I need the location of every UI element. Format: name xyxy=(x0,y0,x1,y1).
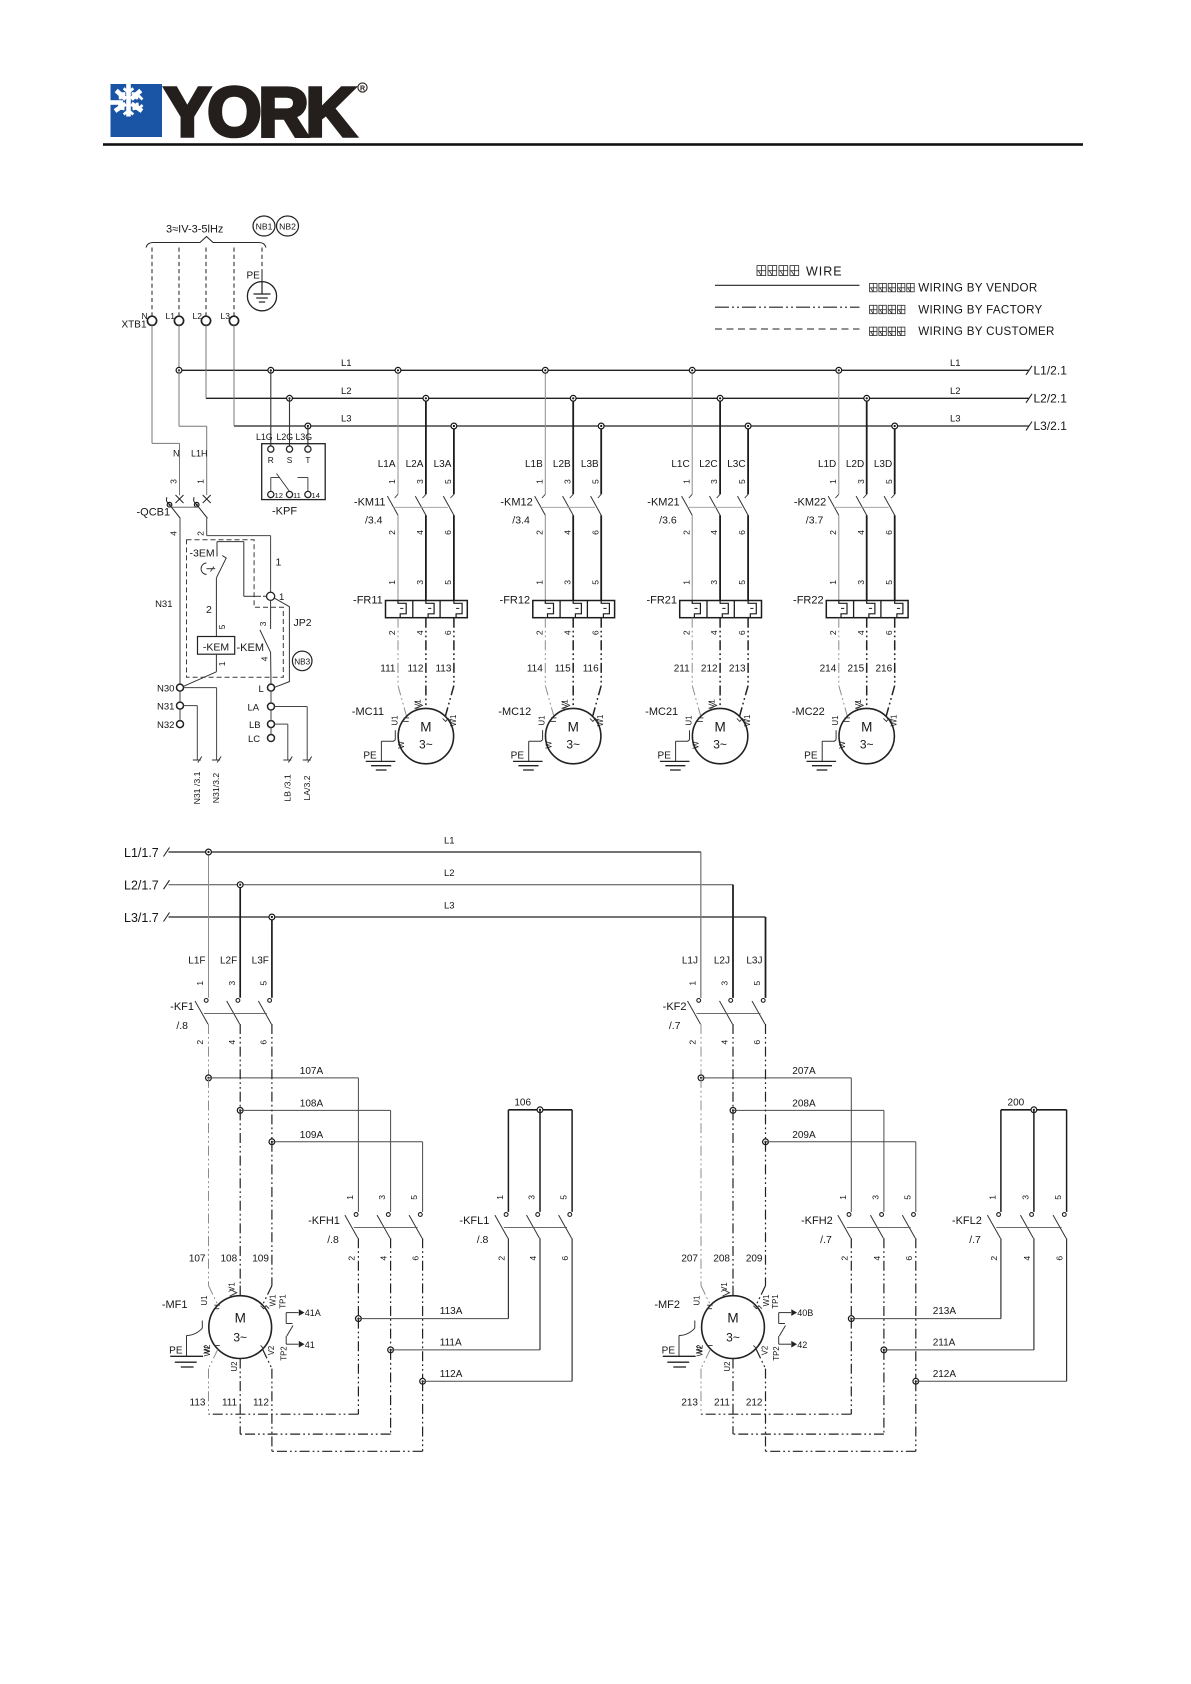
svg-text:2: 2 xyxy=(387,630,397,635)
wire rail L2 xyxy=(206,397,1029,399)
terminal LA xyxy=(268,703,275,710)
customer supply drops (dashed) xyxy=(151,248,153,317)
svg-text:2: 2 xyxy=(347,1256,357,1261)
svg-text:L2: L2 xyxy=(950,386,961,397)
svg-text:L1D: L1D xyxy=(818,459,836,470)
wire 111 xyxy=(397,618,399,686)
relay coil KEM xyxy=(198,637,235,655)
svg-text:1: 1 xyxy=(276,557,282,569)
wire L2D xyxy=(866,398,868,494)
svg-text:108: 108 xyxy=(221,1253,238,1264)
svg-text:-KFH1: -KFH1 xyxy=(308,1215,340,1227)
svg-text:2: 2 xyxy=(839,1256,849,1261)
motor -MF2 xyxy=(701,1286,710,1305)
svg-text:U1: U1 xyxy=(831,716,840,726)
svg-text:2: 2 xyxy=(196,531,206,536)
svg-text:5: 5 xyxy=(752,981,762,986)
svg-text:N: N xyxy=(173,449,180,459)
svg-text:W: W xyxy=(203,1346,212,1354)
svg-text:NB1: NB1 xyxy=(256,222,273,232)
svg-text:LB: LB xyxy=(249,720,261,731)
svg-text:213A: 213A xyxy=(933,1306,957,1317)
svg-text:5: 5 xyxy=(590,580,600,585)
svg-text:5: 5 xyxy=(737,580,747,585)
svg-text:-3EM: -3EM xyxy=(190,548,215,560)
svg-text:L3A: L3A xyxy=(434,459,452,470)
svg-text:W: W xyxy=(695,1346,704,1354)
svg-text:2: 2 xyxy=(206,604,212,616)
svg-text:L2C: L2C xyxy=(699,459,717,470)
svg-text:4: 4 xyxy=(415,530,425,535)
svg-text:PE: PE xyxy=(247,271,261,282)
svg-text:U1: U1 xyxy=(692,1296,701,1306)
svg-text:112: 112 xyxy=(407,663,423,674)
ground PE xyxy=(394,730,396,740)
svg-text:6: 6 xyxy=(590,630,600,635)
XTB1 feeders xyxy=(151,325,153,443)
svg-text:112: 112 xyxy=(253,1397,269,1408)
svg-text:N31: N31 xyxy=(157,701,174,712)
svg-text:V2: V2 xyxy=(761,1346,770,1356)
svg-text:2: 2 xyxy=(534,530,544,535)
svg-text:U2: U2 xyxy=(230,1362,239,1372)
outgoing N31/LA/LB wires xyxy=(184,687,217,689)
svg-text:-KM22: -KM22 xyxy=(794,497,826,509)
svg-text:208A: 208A xyxy=(792,1098,816,1109)
svg-text:3~: 3~ xyxy=(726,1331,740,1345)
svg-text:111: 111 xyxy=(222,1397,238,1408)
svg-text:6: 6 xyxy=(752,1040,762,1045)
svg-text:XTB1: XTB1 xyxy=(122,320,147,331)
svg-text:4: 4 xyxy=(260,656,270,661)
svg-text:-FR12: -FR12 xyxy=(500,594,531,606)
wire 211 xyxy=(691,618,693,686)
svg-text:L3J: L3J xyxy=(746,956,762,967)
svg-text:W: W xyxy=(397,741,406,749)
svg-text:2: 2 xyxy=(387,530,397,535)
wire L1B xyxy=(544,370,546,494)
svg-text:WIRE: WIRE xyxy=(806,265,843,279)
svg-text:-KFH2: -KFH2 xyxy=(801,1215,833,1227)
motor -MC11 xyxy=(398,708,453,763)
svg-text:2: 2 xyxy=(681,530,691,535)
svg-text:LB /3.1: LB /3.1 xyxy=(282,774,292,802)
svg-text:3: 3 xyxy=(856,580,866,585)
junction xyxy=(836,367,842,373)
svg-text:6: 6 xyxy=(884,630,894,635)
svg-text:3: 3 xyxy=(415,479,425,484)
svg-text:N31/3.2: N31/3.2 xyxy=(211,773,221,804)
svg-text:YORK: YORK xyxy=(164,73,355,151)
svg-text:113: 113 xyxy=(435,663,451,674)
svg-text:1: 1 xyxy=(345,1195,355,1200)
svg-text:1: 1 xyxy=(681,580,691,585)
svg-text:209: 209 xyxy=(746,1253,763,1264)
svg-text:6: 6 xyxy=(884,530,894,535)
svg-text:TP2: TP2 xyxy=(772,1346,781,1360)
svg-text:4: 4 xyxy=(1022,1256,1032,1261)
svg-text:L2F: L2F xyxy=(220,956,237,967)
svg-text:PE: PE xyxy=(511,751,525,762)
svg-text:L3B: L3B xyxy=(581,459,599,470)
svg-text:-MC22: -MC22 xyxy=(792,706,825,718)
svg-text:1: 1 xyxy=(681,479,691,484)
svg-text:3~: 3~ xyxy=(566,738,580,752)
wire L1D xyxy=(838,370,840,494)
wire L1F/L2F/L3F columns xyxy=(208,852,210,998)
svg-text:107A: 107A xyxy=(300,1066,324,1077)
wire L3D xyxy=(894,426,896,494)
svg-text:1: 1 xyxy=(688,981,698,986)
svg-text:4: 4 xyxy=(379,1256,389,1261)
svg-text:L1: L1 xyxy=(950,358,961,369)
svg-text:L3C: L3C xyxy=(727,459,745,470)
svg-text:L2A: L2A xyxy=(406,459,424,470)
svg-text:2: 2 xyxy=(989,1256,999,1261)
terminal L xyxy=(268,684,275,691)
svg-text:207: 207 xyxy=(681,1253,698,1264)
svg-text:L3F: L3F xyxy=(252,956,269,967)
svg-text:111: 111 xyxy=(380,663,396,674)
svg-text:JP2: JP2 xyxy=(294,617,312,629)
svg-text:5: 5 xyxy=(902,1195,912,1200)
svg-text:2: 2 xyxy=(828,630,838,635)
YORK logo blue square with snowflake xyxy=(111,84,163,137)
svg-text:L1B: L1B xyxy=(525,459,543,470)
motor -MC22 xyxy=(839,708,894,763)
svg-text:4: 4 xyxy=(856,630,866,635)
svg-text:-KEM: -KEM xyxy=(203,641,229,653)
svg-text:4: 4 xyxy=(720,1040,730,1045)
svg-text:5: 5 xyxy=(443,479,453,484)
node NB3 xyxy=(292,651,312,671)
svg-text:207A: 207A xyxy=(792,1066,816,1077)
svg-text:M: M xyxy=(714,720,725,735)
svg-text:2: 2 xyxy=(681,630,691,635)
svg-text:/3.7: /3.7 xyxy=(806,514,824,526)
svg-text:40B: 40B xyxy=(797,1308,813,1318)
svg-text:5: 5 xyxy=(258,981,268,986)
svg-text:M: M xyxy=(861,720,872,735)
wire L2B xyxy=(572,398,574,494)
svg-text:1: 1 xyxy=(828,479,838,484)
wire L3B xyxy=(600,426,602,494)
svg-text:107: 107 xyxy=(189,1253,206,1264)
svg-text:211: 211 xyxy=(674,663,690,674)
svg-text:L: L xyxy=(259,684,264,695)
svg-text:6: 6 xyxy=(737,530,747,535)
ground PE xyxy=(542,730,544,740)
svg-text:W: W xyxy=(838,741,847,749)
svg-text:WIRING BY VENDOR: WIRING BY VENDOR xyxy=(918,282,1037,295)
svg-text:6: 6 xyxy=(590,530,600,535)
svg-text:L3: L3 xyxy=(950,414,961,425)
svg-text:L1/2.1: L1/2.1 xyxy=(1034,364,1068,378)
svg-text:212: 212 xyxy=(746,1397,763,1408)
terminal N30 xyxy=(177,684,184,691)
svg-text:3: 3 xyxy=(562,580,572,585)
svg-text:3: 3 xyxy=(258,621,268,626)
svg-text:3: 3 xyxy=(871,1195,881,1200)
svg-text:41: 41 xyxy=(305,1340,315,1350)
svg-text:3: 3 xyxy=(377,1195,387,1200)
svg-text:113A: 113A xyxy=(440,1306,463,1317)
svg-text:6: 6 xyxy=(443,630,453,635)
svg-text:5: 5 xyxy=(443,580,453,585)
header rule xyxy=(103,143,1083,146)
svg-text:42: 42 xyxy=(797,1340,807,1350)
svg-text:-KM11: -KM11 xyxy=(354,497,386,509)
legend WIRE xyxy=(757,266,766,276)
svg-text:V2: V2 xyxy=(267,1346,276,1356)
ground PE xyxy=(689,730,691,740)
svg-text:NB2: NB2 xyxy=(279,222,296,232)
svg-text:/.8: /.8 xyxy=(176,1020,188,1032)
svg-text:L2G: L2G xyxy=(277,432,294,442)
svg-text:L3D: L3D xyxy=(874,459,892,470)
wire L2C xyxy=(719,398,721,494)
svg-text:-MF2: -MF2 xyxy=(654,1299,680,1311)
svg-text:214: 214 xyxy=(820,663,837,674)
svg-text:L1: L1 xyxy=(341,358,352,369)
svg-text:5: 5 xyxy=(884,580,894,585)
svg-text:41A: 41A xyxy=(305,1308,321,1318)
svg-text:-KM12: -KM12 xyxy=(500,497,532,509)
junction xyxy=(892,423,898,429)
svg-text:L3G: L3G xyxy=(296,432,313,442)
svg-text:1: 1 xyxy=(387,580,397,585)
svg-text:-FR21: -FR21 xyxy=(646,594,677,606)
svg-text:L2/1.7: L2/1.7 xyxy=(124,879,159,893)
svg-text:6: 6 xyxy=(259,1040,269,1045)
svg-text:M: M xyxy=(568,720,579,735)
svg-text:1: 1 xyxy=(196,479,206,484)
wire L1C xyxy=(691,370,693,494)
svg-text:5: 5 xyxy=(737,479,747,484)
svg-text:4: 4 xyxy=(562,530,572,535)
svg-text:-KF2: -KF2 xyxy=(663,1001,687,1013)
svg-text:LC: LC xyxy=(248,734,260,745)
motor -MC21 xyxy=(692,708,747,763)
svg-text:2: 2 xyxy=(688,1040,698,1045)
svg-text:5: 5 xyxy=(217,624,227,629)
svg-text:PE: PE xyxy=(662,1345,676,1356)
svg-text:-KPF: -KPF xyxy=(272,506,297,518)
PE earth circle xyxy=(247,282,276,311)
svg-text:112A: 112A xyxy=(440,1369,463,1380)
svg-text:L2: L2 xyxy=(341,386,352,397)
svg-text:L3: L3 xyxy=(341,414,352,425)
svg-text:2: 2 xyxy=(534,630,544,635)
svg-text:PE: PE xyxy=(804,751,818,762)
svg-text:PE: PE xyxy=(169,1345,183,1356)
svg-text:116: 116 xyxy=(583,663,599,674)
svg-text:3~: 3~ xyxy=(860,738,874,752)
junction xyxy=(745,423,751,429)
svg-text:114: 114 xyxy=(527,663,543,674)
svg-text:6: 6 xyxy=(411,1256,421,1261)
svg-text:L1/1.7: L1/1.7 xyxy=(124,846,159,860)
junction xyxy=(423,395,429,401)
svg-text:/.8: /.8 xyxy=(477,1234,489,1246)
svg-text:3: 3 xyxy=(562,479,572,484)
svg-text:212: 212 xyxy=(701,663,718,674)
svg-text:W1: W1 xyxy=(269,1295,278,1307)
svg-text:W1: W1 xyxy=(762,1295,771,1307)
svg-text:5: 5 xyxy=(884,479,894,484)
svg-text:-KFL2: -KFL2 xyxy=(952,1215,982,1227)
terminal N31 xyxy=(177,702,184,709)
svg-text:-MC12: -MC12 xyxy=(498,706,531,718)
svg-text:U1: U1 xyxy=(390,716,399,726)
svg-text:T: T xyxy=(305,455,310,465)
svg-text:PE: PE xyxy=(363,751,377,762)
svg-text:N31: N31 xyxy=(155,599,172,610)
svg-text:/3.6: /3.6 xyxy=(659,514,677,526)
svg-text:208: 208 xyxy=(713,1253,730,1264)
svg-text:1: 1 xyxy=(828,580,838,585)
svg-text:213: 213 xyxy=(729,663,746,674)
wire 2 xyxy=(215,578,217,637)
svg-text:3: 3 xyxy=(527,1195,537,1200)
svg-text:R: R xyxy=(360,86,365,93)
wire 214 xyxy=(838,618,840,686)
svg-text:4: 4 xyxy=(709,630,719,635)
svg-text:1: 1 xyxy=(195,981,205,986)
svg-text:-FR22: -FR22 xyxy=(793,594,824,606)
svg-text:/.7: /.7 xyxy=(669,1020,681,1032)
svg-text:L1F: L1F xyxy=(188,956,205,967)
svg-text:N30: N30 xyxy=(157,683,174,694)
svg-text:3~: 3~ xyxy=(419,738,433,752)
ground PE xyxy=(835,730,837,740)
svg-text:109: 109 xyxy=(252,1253,269,1264)
svg-text:5: 5 xyxy=(1053,1195,1063,1200)
svg-text:6: 6 xyxy=(737,630,747,635)
phase monitor KPF xyxy=(268,367,274,373)
svg-text:TP1: TP1 xyxy=(771,1294,780,1308)
svg-text:1: 1 xyxy=(534,580,544,585)
junction xyxy=(598,423,604,429)
svg-text:R: R xyxy=(268,455,274,465)
svg-text:4: 4 xyxy=(562,630,572,635)
svg-text:L1A: L1A xyxy=(378,459,396,470)
svg-text:115: 115 xyxy=(555,663,571,674)
svg-text:L2B: L2B xyxy=(553,459,571,470)
svg-text:-MF1: -MF1 xyxy=(162,1299,188,1311)
svg-text:L3: L3 xyxy=(444,901,455,912)
svg-text:NB3: NB3 xyxy=(294,657,310,666)
svg-text:109A: 109A xyxy=(300,1130,324,1141)
svg-text:M: M xyxy=(727,1311,738,1326)
svg-text:212A: 212A xyxy=(933,1369,957,1380)
jumper JP2 xyxy=(275,598,290,687)
junction xyxy=(542,367,548,373)
junction xyxy=(395,367,401,373)
svg-text:N31 /3.1: N31 /3.1 xyxy=(192,771,202,804)
svg-text:6: 6 xyxy=(904,1256,914,1261)
svg-text:3: 3 xyxy=(169,479,179,484)
svg-text:4: 4 xyxy=(415,630,425,635)
svg-text:W: W xyxy=(691,741,700,749)
svg-text:L1J: L1J xyxy=(682,956,698,967)
svg-text:3~: 3~ xyxy=(233,1331,247,1345)
svg-text:4: 4 xyxy=(227,1040,237,1045)
enclosure dashed box 3EM xyxy=(187,540,284,678)
svg-text:L2/2.1: L2/2.1 xyxy=(1034,392,1068,406)
svg-text:PE: PE xyxy=(658,751,672,762)
svg-text:TP2: TP2 xyxy=(280,1346,289,1360)
svg-text:2: 2 xyxy=(828,530,838,535)
svg-text:1: 1 xyxy=(495,1195,505,1200)
wire L3A xyxy=(453,426,455,494)
ground PE xyxy=(694,1321,696,1329)
svg-text:3: 3 xyxy=(856,479,866,484)
svg-text:4: 4 xyxy=(169,531,179,536)
svg-text:3≈IV-3-5lHz: 3≈IV-3-5lHz xyxy=(166,224,223,236)
wire rail L3 xyxy=(234,425,1029,427)
svg-text:3: 3 xyxy=(227,981,237,986)
ground PE xyxy=(201,1321,203,1329)
taps 107A/108A/109A style xyxy=(700,1024,702,1078)
svg-text:U2: U2 xyxy=(723,1362,732,1372)
svg-text:M: M xyxy=(235,1311,246,1326)
svg-text:4: 4 xyxy=(872,1256,882,1261)
svg-text:106: 106 xyxy=(514,1098,531,1109)
svg-text:W: W xyxy=(545,741,554,749)
svg-text:N32: N32 xyxy=(157,720,174,731)
svg-text:L2: L2 xyxy=(444,868,455,879)
svg-text:1: 1 xyxy=(217,661,227,666)
svg-text:2: 2 xyxy=(195,1040,205,1045)
svg-text:3~: 3~ xyxy=(713,738,727,752)
svg-text:213: 213 xyxy=(681,1397,698,1408)
svg-text:-KEM: -KEM xyxy=(237,642,265,654)
motor -MF1 xyxy=(209,1286,218,1305)
junction xyxy=(717,395,723,401)
svg-text:111A: 111A xyxy=(440,1337,462,1348)
wire L2A xyxy=(425,398,427,494)
svg-text:LA: LA xyxy=(248,703,260,714)
node NB2 xyxy=(277,216,299,236)
svg-text:L1C: L1C xyxy=(671,459,689,470)
motor -MC12 xyxy=(546,708,601,763)
svg-text:2: 2 xyxy=(497,1256,507,1261)
svg-text:WIRING BY FACTORY: WIRING BY FACTORY xyxy=(918,303,1042,316)
svg-text:L2J: L2J xyxy=(714,956,730,967)
svg-text:L1: L1 xyxy=(444,836,455,847)
svg-text:216: 216 xyxy=(876,663,893,674)
svg-text:108A: 108A xyxy=(300,1098,324,1109)
svg-text:4: 4 xyxy=(528,1256,538,1261)
terminal LC xyxy=(268,735,275,742)
svg-text:-KFL1: -KFL1 xyxy=(459,1215,489,1227)
svg-text:3: 3 xyxy=(720,981,730,986)
svg-text:3: 3 xyxy=(709,580,719,585)
junction xyxy=(864,395,870,401)
svg-text:/.7: /.7 xyxy=(820,1234,832,1246)
svg-text:/.7: /.7 xyxy=(969,1234,981,1246)
svg-text:6: 6 xyxy=(560,1256,570,1261)
svg-text:5: 5 xyxy=(559,1195,569,1200)
wire L1H jog to terminal 1 xyxy=(206,518,208,535)
terminal N32 xyxy=(177,721,184,728)
svg-text:L3/2.1: L3/2.1 xyxy=(1034,419,1068,433)
wire L1J/L2J/L3J columns xyxy=(700,852,702,998)
svg-text:1: 1 xyxy=(534,479,544,484)
svg-text:113: 113 xyxy=(190,1397,206,1408)
junction xyxy=(570,395,576,401)
